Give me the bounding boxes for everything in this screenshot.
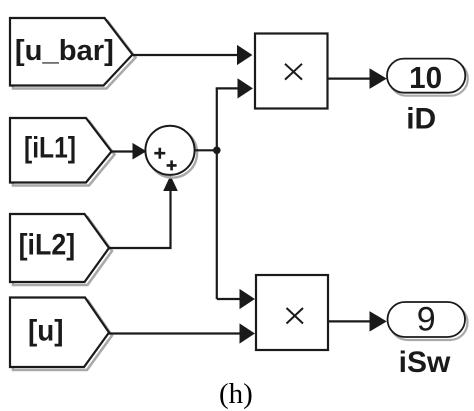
svg-text:iD: iD bbox=[406, 103, 436, 136]
svg-text:[u_bar]: [u_bar] bbox=[15, 35, 114, 67]
wire branch to product P2 input 1 bbox=[217, 290, 254, 308]
wire product P2 to outport 9 bbox=[328, 312, 386, 331]
node junction bbox=[213, 147, 221, 155]
wire sum output to junction bbox=[195, 149, 217, 151]
svg-text:iSw: iSw bbox=[399, 346, 451, 379]
sum block S1 bbox=[145, 126, 197, 178]
product block P2 bbox=[256, 275, 328, 350]
from block [iL1] bbox=[10, 118, 115, 186]
from block [iL2] bbox=[10, 214, 112, 285]
svg-text:10: 10 bbox=[409, 60, 442, 95]
from block [u_bar] bbox=[10, 18, 136, 89]
svg-text:[iL2]: [iL2] bbox=[19, 229, 76, 262]
wire iL2 to sum S1 bottom input bbox=[109, 177, 177, 249]
svg-text:(h): (h) bbox=[219, 378, 253, 410]
product block P1 bbox=[255, 34, 328, 109]
wire u to product P2 input 2 bbox=[109, 324, 254, 342]
wire product P1 to outport 10 bbox=[328, 69, 386, 88]
wire branch to product P1 input 2 bbox=[216, 79, 252, 97]
svg-text:[iL1]: [iL1] bbox=[24, 132, 76, 165]
wire u_bar to product P1 input 1 bbox=[133, 46, 252, 64]
from block [u] bbox=[10, 298, 112, 371]
wire junction vertical branch bbox=[216, 88, 218, 299]
outport 9 bbox=[388, 301, 468, 340]
svg-text:[u]: [u] bbox=[28, 315, 64, 348]
wire iL1 to sum S1 bbox=[112, 144, 146, 159]
svg-text:9: 9 bbox=[417, 301, 436, 339]
outport 10 bbox=[387, 59, 468, 96]
